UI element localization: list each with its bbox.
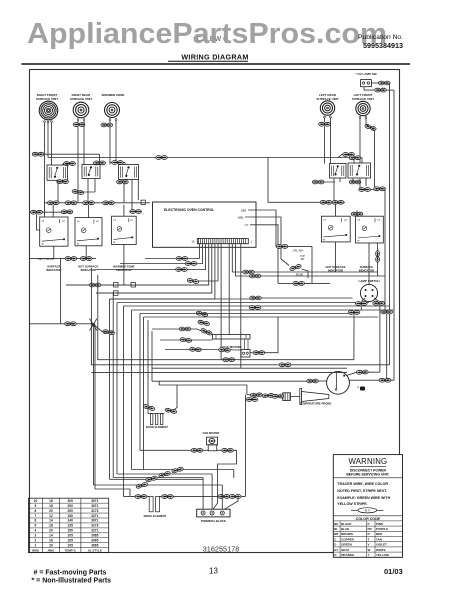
svg-text:P: P [368, 522, 370, 526]
wire lamp A2 [360, 305, 362, 310]
svg-text:20: 20 [49, 543, 53, 547]
junction square row1 [141, 200, 145, 204]
wire top C stub mid [110, 162, 125, 164]
wire band y306 [124, 305, 390, 307]
svg-text:INDICATOR: INDICATOR [81, 268, 96, 272]
connector below B4 [312, 180, 324, 184]
wire I4 top lead [335, 204, 337, 216]
wire top C stub left [63, 163, 76, 165]
connector row1 d [103, 201, 115, 205]
EOC pin strip [197, 239, 248, 244]
wire I5 top lead [356, 210, 358, 216]
title underline [168, 60, 248, 62]
wire lock b [160, 339, 181, 341]
svg-text:12: 12 [49, 514, 53, 518]
connector lock row b [200, 328, 212, 336]
wire drop x148 [147, 320, 149, 414]
wire probe feed [247, 395, 283, 397]
wire y385 run [159, 381, 247, 394]
svg-text:BK-7 60.08: BK-7 60.08 [38, 257, 53, 261]
svg-text:TRACER WIRE, WIRE COLOR: TRACER WIRE, WIRE COLOR [337, 482, 388, 486]
svg-text:3065: 3065 [91, 539, 98, 543]
svg-text:G-Y: G-Y [365, 509, 370, 513]
svg-text:VIOLET: VIOLET [376, 543, 387, 547]
wire oven light left [318, 380, 327, 382]
terminal lead D stub [233, 470, 235, 479]
svg-text:T: T [368, 537, 370, 541]
switch warmer B3 [119, 165, 139, 180]
connector top row A1 [94, 161, 106, 165]
wire band y285 [66, 284, 209, 286]
connector probe feed c [272, 394, 284, 398]
svg-text:TEMP°C: TEMP°C [65, 549, 77, 553]
svg-text:6: 6 [35, 519, 37, 523]
wire band y317 [144, 316, 379, 318]
svg-text:9: 9 [35, 504, 37, 508]
svg-text:01/03: 01/03 [384, 567, 403, 576]
wire band y302.5 [117, 302, 369, 304]
connector lamp A [356, 302, 368, 306]
wire oval row 1 [44, 202, 150, 204]
svg-text:Y: Y [368, 553, 370, 557]
svg-text:WHITE: WHITE [376, 548, 386, 552]
wire oven light left run [152, 380, 307, 382]
svg-text:20: 20 [49, 509, 53, 513]
EOC pin wire 8 [220, 244, 222, 360]
switch left front B5 [348, 163, 371, 178]
connector y399.5 a [246, 398, 258, 402]
EOC pin wires staircase left [145, 244, 199, 259]
wire left bottom row [30, 258, 96, 260]
svg-text:200: 200 [68, 504, 74, 508]
svg-text:3173: 3173 [91, 524, 98, 528]
svg-text:13: 13 [209, 567, 218, 576]
connector row2 c [130, 210, 142, 214]
connector bake b [165, 408, 177, 414]
svg-text:BROIL ELEMENT: BROIL ELEMENT [144, 514, 167, 518]
wire drop x140 [139, 314, 141, 451]
wire I3 top lead [123, 205, 125, 217]
wire gauge table [29, 498, 109, 552]
right bus wire x394 [393, 90, 395, 380]
left rear unit terminals [324, 116, 326, 118]
connector lamp D [381, 310, 393, 314]
warmer zone coil [105, 103, 120, 118]
svg-text:ORL-WH: ORL-WH [293, 248, 304, 252]
wire row2 c stub [130, 211, 141, 213]
left front surface unit coil [356, 101, 370, 115]
connector row2 a [31, 210, 43, 214]
connector broil right [162, 495, 174, 499]
svg-text:SURFACE UNIT: SURFACE UNIT [352, 97, 374, 101]
svg-text:RD: RD [301, 258, 305, 261]
connector bottom row 2 [158, 471, 170, 478]
svg-text:INDICATOR: INDICATOR [46, 268, 61, 272]
svg-text:200: 200 [68, 499, 74, 503]
wire row2 left [30, 211, 70, 213]
connector DBK end [276, 245, 288, 249]
connector row2 b [61, 210, 73, 214]
svg-text:W: W [368, 548, 371, 552]
wire drop x143.5 [143, 317, 145, 464]
switch right front B1 [47, 165, 68, 180]
svg-text:5995384913: 5995384913 [363, 41, 403, 50]
svg-text:COPPER: COPPER [341, 537, 355, 541]
svg-text:BROWN: BROWN [341, 532, 353, 536]
svg-text:TEMPERATURE PROBE: TEMPERATURE PROBE [300, 402, 332, 406]
wire I4 bottom lead [335, 242, 337, 272]
wire drop x123.5 [123, 306, 125, 496]
wire fan right [213, 450, 237, 509]
wire MBL cluster [285, 262, 289, 266]
bake element bars [151, 414, 153, 425]
wire I3 bottom lead [123, 244, 125, 285]
connector above I5 [351, 212, 363, 216]
connector stair c [176, 268, 188, 272]
wire lock e stub [222, 359, 234, 361]
wire RR leads to switch [77, 127, 79, 203]
wire RF lead right [51, 123, 53, 166]
EOC DBK stub wire [248, 210, 277, 246]
connector row1 c [83, 201, 95, 205]
connector below B5 a [349, 180, 361, 184]
connector below B1 b [72, 189, 84, 195]
connector lock row a [179, 327, 191, 331]
wire I5 bottom lead [368, 243, 370, 276]
wire top A corner [99, 154, 101, 163]
left rear surface unit coil [320, 101, 334, 115]
connector MBL end [289, 264, 301, 271]
oven lamp switch SW box [361, 80, 372, 87]
connector bottom row 4 [136, 482, 148, 489]
connector top row C1 [112, 161, 124, 165]
connector row276 [249, 274, 261, 278]
svg-text:16: 16 [191, 240, 195, 244]
svg-text:7: 7 [35, 514, 37, 518]
svg-text:3: 3 [35, 534, 37, 538]
connector band y306 [249, 306, 261, 310]
wire top row A left [33, 153, 100, 155]
wire bottom row 2 [117, 473, 212, 475]
svg-text:BLUE: BLUE [341, 527, 349, 531]
connector below junction [103, 329, 115, 335]
svg-text:3071: 3071 [91, 499, 98, 503]
connector broil right2 [218, 495, 230, 499]
svg-text:GREEN: GREEN [341, 543, 352, 547]
svg-text:3071: 3071 [91, 504, 98, 508]
svg-text:AWG: AWG [47, 549, 55, 553]
svg-text:150: 150 [68, 529, 74, 533]
right front surface unit coil [39, 101, 58, 120]
wire LR lead down [324, 126, 326, 163]
wire lock row [152, 328, 197, 330]
wire top B right end [346, 158, 362, 164]
wire lamp A [361, 298, 365, 302]
connector lamp B [373, 301, 385, 305]
electronic oven control box [153, 202, 257, 247]
wire LR lead left [324, 118, 326, 122]
wire left vert x60.6 [60, 259, 62, 324]
connector fan right [222, 448, 234, 452]
temperature probe body [283, 393, 291, 401]
right rear surface unit coil [73, 102, 89, 118]
wire bake b [174, 385, 177, 410]
connector stair d [187, 278, 199, 284]
connector fan left [191, 448, 203, 452]
wire bottom row 3b [113, 477, 203, 479]
terminal lead C [221, 485, 223, 509]
connector warmer [101, 123, 113, 127]
wire lamp B [374, 298, 379, 301]
connector stair f [198, 320, 210, 326]
lock pin box [241, 350, 250, 358]
right rear unit terminals [77, 119, 79, 121]
svg-text:105: 105 [68, 534, 74, 538]
svg-text:14: 14 [49, 534, 53, 538]
svg-text:5: 5 [35, 524, 37, 528]
svg-text:Publication No.: Publication No. [358, 34, 403, 41]
connector top row A2 [343, 153, 355, 157]
right bus wire x389.5 [389, 83, 391, 365]
hot surface indicator I4 [321, 216, 350, 242]
connector lock e [223, 358, 235, 362]
hot surface indicator I2 [75, 218, 102, 246]
wire lamp sw to connector [371, 82, 378, 84]
svg-text:BAKE ELEMENT: BAKE ELEMENT [146, 425, 168, 429]
connector oven light right lower [379, 378, 391, 382]
svg-text:TAN: TAN [376, 537, 382, 541]
wire junction row [30, 323, 94, 325]
wire drop x109.5 [109, 299, 111, 479]
wire LF lead right [366, 118, 369, 125]
wire band y299 cont [261, 297, 353, 299]
svg-text:GRAY: GRAY [341, 548, 349, 552]
svg-text:# = Fast-moving Parts: # = Fast-moving Parts [34, 570, 107, 577]
connector lbr b [80, 257, 92, 261]
svg-text:10: 10 [34, 499, 38, 503]
wire I2 top lead [88, 205, 90, 218]
svg-text:14: 14 [49, 519, 53, 523]
wire warmer lead down [109, 127, 111, 165]
right front unit terminals [44, 121, 46, 123]
wire bottom row 1 [132, 469, 234, 471]
svg-text:AppliancePartsPros.com: AppliancePartsPros.com [27, 18, 387, 50]
wire band y310 [132, 309, 395, 311]
connector bake a [143, 404, 155, 411]
svg-text:3065: 3065 [91, 543, 98, 547]
wire band y299 [110, 298, 251, 300]
svg-text:16: 16 [49, 539, 53, 543]
wire y368 run [152, 367, 347, 369]
junction node [92, 323, 95, 326]
wire drop x113.2 [112, 293, 114, 478]
wire connector to right bus B [386, 89, 394, 91]
wire top B right fork up [338, 154, 354, 163]
terminal block body [197, 509, 230, 517]
wire lamp B2 [379, 305, 380, 372]
svg-text:200: 200 [68, 509, 74, 513]
wire y372.6 run [91, 372, 347, 374]
switch right rear B2 [82, 165, 100, 179]
wire I1 top lead [52, 205, 54, 217]
connector CT end [293, 282, 305, 286]
svg-text:RED: RED [376, 532, 383, 536]
wire lock pin leads [244, 339, 246, 350]
svg-text:PURPLE: PURPLE [376, 527, 388, 531]
EOC MBL stub wire [245, 217, 285, 262]
warmer zone indicator I3 [112, 216, 137, 244]
svg-text:WARNING: WARNING [349, 457, 388, 466]
svg-text:YELLOW STRIPE.: YELLOW STRIPE. [337, 502, 367, 506]
svg-text:105: 105 [68, 543, 74, 547]
connector broil left [135, 495, 147, 499]
switch left rear B4 [330, 164, 347, 179]
svg-text:105: 105 [68, 539, 74, 543]
wire band y293 [96, 292, 212, 294]
wire top A into B2 [99, 163, 101, 165]
connector row272 [243, 270, 255, 274]
svg-text:3271: 3271 [91, 514, 98, 518]
svg-text:SURFACE UNIT: SURFACE UNIT [70, 97, 92, 101]
wire oven light right lower [349, 379, 394, 381]
svg-text:YELLOW: YELLOW [376, 553, 389, 557]
EOC CT stub wire [250, 225, 278, 284]
wire drop x117 [116, 303, 118, 475]
connector stair b [185, 262, 197, 266]
connector probe feed b [262, 393, 274, 397]
connector row1 f [332, 200, 344, 204]
connector RR pair [73, 123, 85, 127]
EOC pin wire 11 [235, 244, 385, 276]
svg-text:BL: BL [334, 527, 338, 531]
connector band y299 [250, 296, 262, 300]
svg-text:WIRING DIAGRAM: WIRING DIAGRAM [181, 53, 248, 62]
wire stair d stub [198, 244, 218, 281]
terminal lead B [211, 474, 213, 509]
wire lock c [165, 349, 191, 351]
wire below B5 [352, 178, 354, 182]
svg-text:FAN MOTOR: FAN MOTOR [203, 431, 220, 435]
wire RR lead left [77, 121, 79, 124]
connector top row B2 [349, 156, 361, 160]
svg-text:BEFORE SERVICING UNIT.: BEFORE SERVICING UNIT. [346, 472, 389, 476]
svg-text:BLACK: BLACK [341, 522, 352, 526]
svg-text:MBL: MBL [238, 215, 244, 219]
wire band y313.5 [140, 313, 348, 315]
svg-text:1: 1 [35, 543, 37, 547]
svg-text:316255178: 316255178 [203, 545, 240, 554]
connector junction row [65, 322, 77, 326]
oven light circle [327, 371, 350, 394]
warmer zone terminals [109, 119, 111, 121]
wire junction pair down [93, 324, 95, 485]
connector top row B3 [156, 156, 168, 160]
connector row1 e [320, 200, 332, 204]
svg-text:DBK: DBK [241, 209, 247, 213]
oven light terminals [343, 375, 345, 377]
connector below B3 [117, 180, 129, 184]
svg-text:150: 150 [68, 514, 74, 518]
connector stair a [176, 257, 188, 261]
header rule line [22, 63, 411, 65]
connector lamp sw B [375, 88, 387, 92]
connector LR pair [319, 122, 331, 126]
surface indicator I1 [40, 217, 68, 246]
svg-text:CT: CT [245, 223, 249, 227]
connector stair e [196, 311, 208, 317]
connector below B1 [57, 180, 69, 184]
wire broil right [160, 495, 246, 497]
diagram frame [30, 70, 400, 553]
connector bottom row 1 [171, 467, 183, 474]
svg-text:3065: 3065 [91, 534, 98, 538]
EOC pin wire 12 [240, 244, 242, 369]
connector below B5 c [374, 187, 386, 191]
svg-text:GY: GY [334, 548, 338, 552]
wire below B2 [87, 179, 89, 203]
wire vert x143.5 end [143, 464, 145, 470]
wire oval row right [313, 201, 345, 203]
connector lamp C [348, 311, 360, 315]
wire RF lead mid [47, 123, 49, 158]
wire lamp C [353, 314, 355, 359]
connector LF [364, 124, 376, 132]
connector oven light right upper [356, 370, 368, 374]
connector lock d [253, 351, 265, 355]
wire below B4 [333, 178, 335, 202]
svg-text:3173: 3173 [91, 509, 98, 513]
connector lock c [189, 347, 201, 352]
wire bottom row 4 [94, 484, 223, 486]
wire below B1 [57, 180, 59, 202]
svg-text:135: 135 [68, 524, 74, 528]
lamp switch pins [365, 289, 367, 291]
svg-text:ELECTRONIC OVEN CONTROL: ELECTRONIC OVEN CONTROL [164, 208, 214, 212]
wire broil left [124, 495, 150, 497]
wire fan left [140, 449, 208, 451]
svg-text:NOTED FIRST, STRIPE NEXT.: NOTED FIRST, STRIPE NEXT. [337, 489, 387, 493]
broil element bars [149, 496, 153, 511]
svg-text:20: 20 [49, 529, 53, 533]
svg-text:V: V [368, 543, 370, 547]
svg-text:SURFACE UNIT: SURFACE UNIT [316, 97, 338, 101]
EOC pin wire 10 [232, 244, 377, 272]
surface indicator I5 [356, 216, 384, 243]
connector row1 b [65, 201, 77, 205]
wire fan right drop [245, 395, 247, 497]
left front unit terminals [359, 117, 361, 119]
wire warmer lead right [115, 121, 117, 165]
connector band y285 [89, 283, 101, 287]
connector below B5 b [359, 188, 371, 192]
EOC pin wire 9 [228, 244, 230, 335]
terminal lead A [202, 478, 204, 510]
wire row2 a into I1 [37, 214, 40, 230]
junction square band b [114, 291, 119, 296]
svg-text:SURFACE UNIT: SURFACE UNIT [36, 97, 58, 101]
wire drop x131.5 [131, 310, 133, 470]
wire lamp sw bottom lead [364, 87, 374, 90]
svg-text:4: 4 [35, 529, 37, 533]
connector lock b [180, 337, 192, 342]
svg-text:18: 18 [49, 524, 53, 528]
wire bottom row 3 [110, 478, 204, 480]
wire B3 third lead [137, 180, 139, 201]
svg-text:* OV LAMP SW: * OV LAMP SW [355, 72, 376, 76]
wire B5 right lead [385, 189, 387, 310]
svg-text:UL STYLE: UL STYLE [88, 549, 102, 553]
connector lock c2 [219, 348, 231, 353]
